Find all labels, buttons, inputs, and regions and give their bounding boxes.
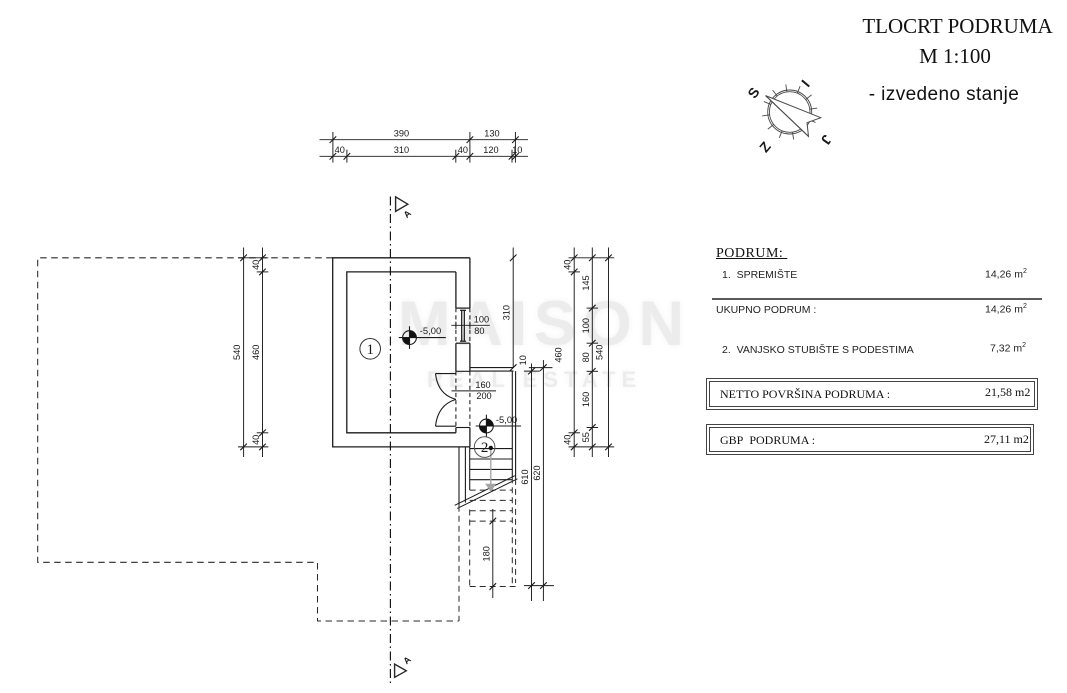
dashed outline of floor above xyxy=(38,258,459,621)
legend: PODRUM xyxy=(716,246,787,262)
watermark MAISON xyxy=(398,288,691,360)
row ukupno xyxy=(716,304,816,316)
external stair landing xyxy=(470,368,516,479)
svg-text:J: J xyxy=(818,132,836,148)
watermark REAL ESTATE xyxy=(427,367,642,393)
svg-text:10: 10 xyxy=(518,355,528,365)
svg-text:A: A xyxy=(401,654,413,666)
room circle 2 xyxy=(474,437,495,458)
netto box xyxy=(706,378,1038,410)
stair break line xyxy=(455,476,518,509)
svg-text:40: 40 xyxy=(251,435,261,445)
svg-text:390: 390 xyxy=(394,129,409,139)
svg-text:40: 40 xyxy=(335,145,345,155)
svg-text:160: 160 xyxy=(475,380,490,390)
stair direction arrow xyxy=(490,449,492,484)
subtitle xyxy=(844,84,1044,106)
svg-text:620: 620 xyxy=(532,465,542,480)
svg-text:-5,00: -5,00 xyxy=(420,325,441,336)
row 2 xyxy=(722,344,914,356)
svg-text:180: 180 xyxy=(481,546,491,561)
svg-text:10: 10 xyxy=(512,145,522,155)
svg-text:310: 310 xyxy=(502,305,512,320)
svg-text:100: 100 xyxy=(581,318,591,333)
svg-text:200: 200 xyxy=(476,391,491,401)
divider xyxy=(712,298,1042,300)
svg-text:100: 100 xyxy=(474,315,489,325)
svg-text:I: I xyxy=(798,77,813,90)
row 1 xyxy=(722,269,797,281)
svg-text:540: 540 xyxy=(595,345,605,360)
svg-text:80: 80 xyxy=(581,352,591,362)
svg-text:S: S xyxy=(744,84,762,101)
compass needle xyxy=(766,96,821,137)
section arrow top xyxy=(396,197,408,212)
svg-text:310: 310 xyxy=(394,145,409,155)
gbp box xyxy=(706,424,1034,455)
svg-text:40: 40 xyxy=(458,145,468,155)
stairs continued dashed xyxy=(459,477,516,621)
svg-text:40: 40 xyxy=(562,435,572,445)
svg-text:130: 130 xyxy=(484,129,499,139)
double door 160/200 xyxy=(436,371,470,427)
svg-text:2: 2 xyxy=(481,440,489,456)
svg-text:A: A xyxy=(402,208,414,220)
window 100/80 xyxy=(456,308,470,343)
svg-text:55: 55 xyxy=(581,432,591,442)
section arrow bottom xyxy=(395,664,407,677)
section line A-A xyxy=(389,197,391,686)
dimension lines xyxy=(238,132,614,601)
building walls xyxy=(333,258,470,447)
svg-text:1: 1 xyxy=(366,342,374,358)
svg-text:610: 610 xyxy=(520,469,530,484)
svg-text:460: 460 xyxy=(251,345,261,360)
wall openings dashed xyxy=(456,308,470,427)
svg-text:80: 80 xyxy=(474,326,484,336)
stair steps xyxy=(459,447,512,506)
svg-text:40: 40 xyxy=(562,260,572,270)
svg-text:120: 120 xyxy=(483,145,498,155)
elevation marker -5.00 room xyxy=(399,326,446,349)
elevation marker -5.00 landing xyxy=(476,415,521,438)
svg-text:540: 540 xyxy=(232,345,242,360)
svg-text:Z: Z xyxy=(756,138,774,155)
svg-text:145: 145 xyxy=(581,275,591,290)
svg-text:-5,00: -5,00 xyxy=(496,414,517,425)
compass rose xyxy=(762,85,817,140)
room circle 1 xyxy=(360,339,381,360)
title xyxy=(855,14,1060,39)
svg-text:40: 40 xyxy=(251,260,261,270)
svg-text:160: 160 xyxy=(581,392,591,407)
svg-text:460: 460 xyxy=(554,347,564,362)
